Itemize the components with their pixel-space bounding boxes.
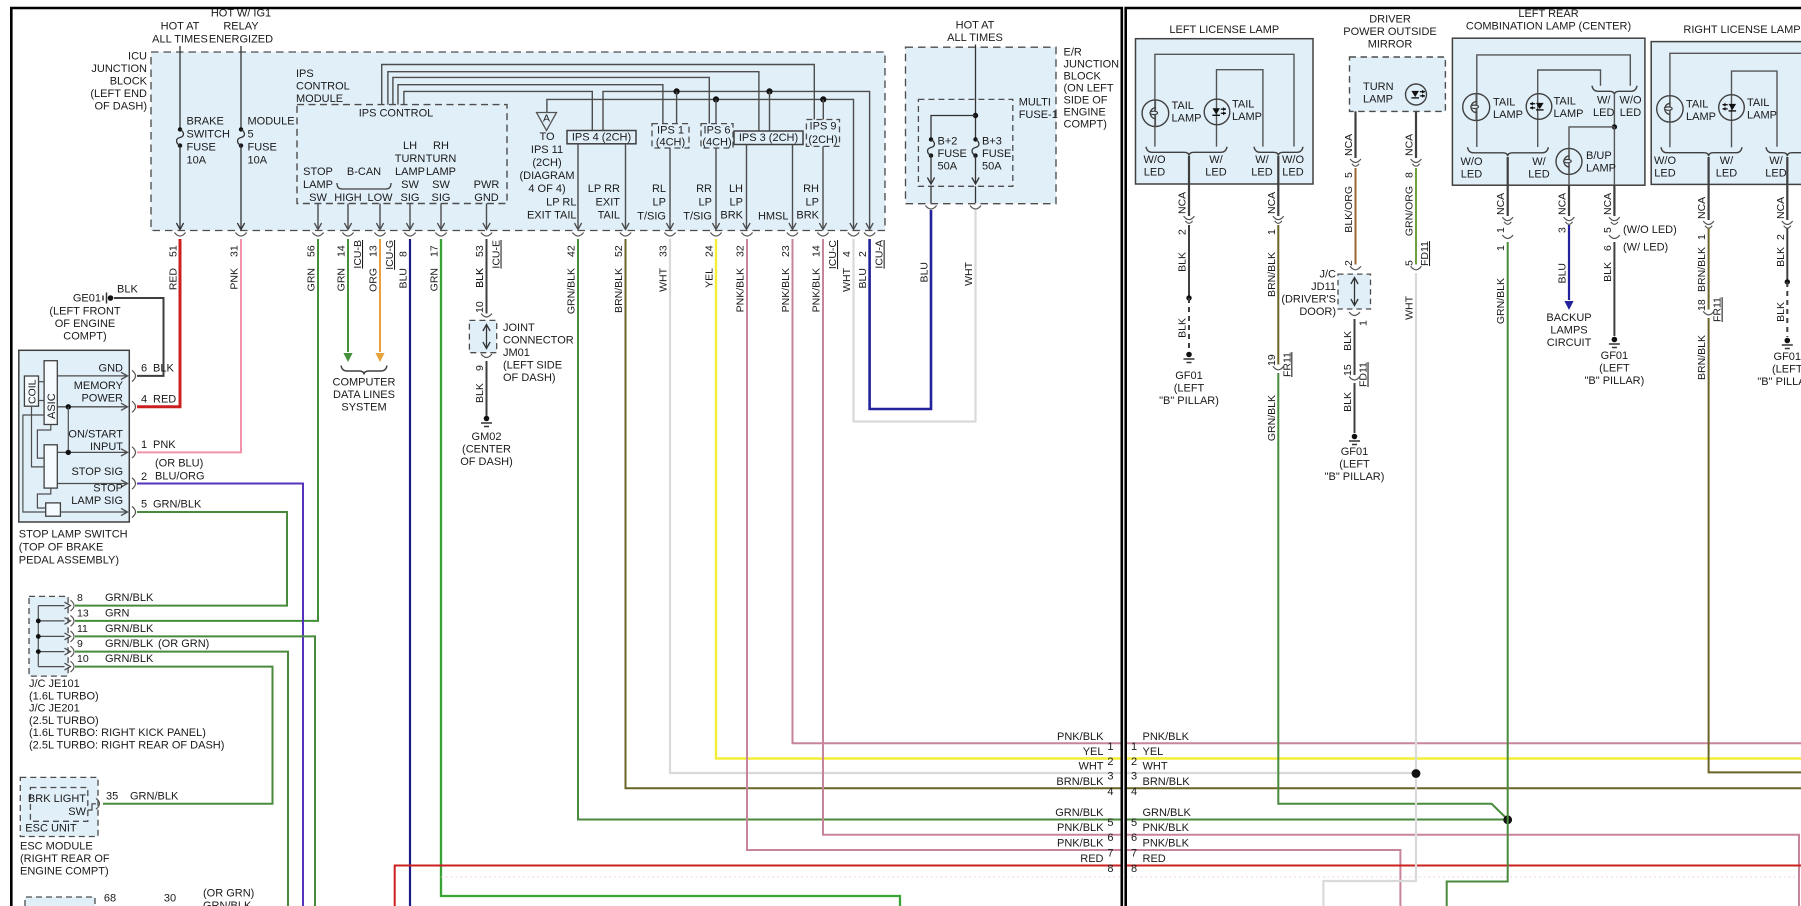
svg-text:BLK: BLK — [153, 363, 174, 375]
LED turn lamp — [1406, 84, 1427, 105]
svg-text:YEL: YEL — [704, 268, 716, 288]
wire GRN/BLK JE101 pin11 down — [75, 636, 315, 906]
svg-text:PNK/BLK: PNK/BLK — [1057, 838, 1104, 850]
wire PNK/BLK pin14 to row 6 — [823, 239, 1122, 835]
svg-text:TAIL: TAIL — [598, 210, 620, 222]
wire BRN/BLK to FR11 — [1277, 225, 1279, 365]
svg-text:LH: LH — [403, 140, 417, 152]
node on line F for IPS 6 — [713, 96, 719, 102]
svg-text:1: 1 — [1266, 229, 1278, 235]
svg-text:GRN/BLK: GRN/BLK — [105, 592, 154, 604]
junction block ICU (box) — [151, 52, 885, 231]
pin STOP SIG — [57, 483, 126, 485]
wire: IPS CONTROL stub x=410 — [409, 204, 411, 229]
svg-text:T/SIG: T/SIG — [637, 211, 666, 223]
svg-text:(1.6L TURBO: RIGHT KICK PANEL): (1.6L TURBO: RIGHT KICK PANEL) — [29, 727, 206, 739]
svg-text:7: 7 — [1107, 848, 1113, 860]
ESC unit outer box — [20, 777, 98, 836]
svg-text:GF01: GF01 — [1601, 350, 1629, 362]
mirror output wires — [1354, 111, 1356, 158]
svg-text:WHT: WHT — [1078, 761, 1103, 773]
svg-text:LED: LED — [1654, 168, 1675, 180]
svg-text:(2CH): (2CH) — [532, 157, 561, 169]
svg-text:BLK: BLK — [117, 284, 138, 296]
svg-text:(4CH): (4CH) — [656, 137, 685, 149]
row 8 wire RED — [1126, 865, 1801, 867]
svg-text:RELAY: RELAY — [223, 21, 259, 33]
ground GF01 left B pillar — [1186, 352, 1192, 358]
svg-text:NCA: NCA — [1404, 134, 1416, 156]
wire: feed from HOT W/IG1 — [240, 46, 242, 129]
wire GRN pin14 to computer data lines — [347, 239, 349, 352]
svg-text:35: 35 — [106, 791, 118, 803]
wire from B+2 to box edge — [930, 156, 932, 183]
svg-text:WHT: WHT — [1404, 295, 1416, 319]
node on line F for IPS 9 — [820, 96, 826, 102]
node on line E for IPS 1 — [674, 88, 680, 94]
svg-text:5: 5 — [248, 129, 254, 141]
svg-text:SYSTEM: SYSTEM — [341, 402, 386, 414]
svg-text:4 OF 4): 4 OF 4) — [528, 183, 565, 195]
svg-text:E/R: E/R — [1064, 47, 1082, 59]
svg-text:FUSE: FUSE — [248, 142, 277, 154]
output BRN/BLK right license — [1707, 157, 1709, 220]
IPS 4 (2CH) box U-IPS4 — [567, 131, 636, 144]
svg-text:51: 51 — [168, 245, 180, 257]
svg-text:BRN/BLK: BRN/BLK — [1056, 776, 1104, 788]
svg-text:31: 31 — [229, 245, 241, 257]
connector pin 24 at x=716 — [710, 233, 721, 237]
IPS 9 (2CH) box — [806, 120, 839, 147]
svg-text:B+3: B+3 — [982, 136, 1002, 148]
svg-text:LAMP: LAMP — [426, 166, 456, 178]
svg-text:STOP LAMP SWITCH: STOP LAMP SWITCH — [19, 529, 128, 541]
svg-text:W/O: W/O — [1620, 95, 1642, 107]
svg-text:GRN: GRN — [429, 268, 441, 291]
pin STOP LAMP SIG — [60, 511, 126, 513]
svg-text:COMPUTER: COMPUTER — [333, 377, 396, 389]
output BLK right license — [1786, 157, 1788, 220]
svg-text:NCA: NCA — [1177, 192, 1189, 214]
svg-text:LAMP: LAMP — [1747, 110, 1777, 122]
svg-text:TURN: TURN — [395, 153, 426, 165]
wire BLK to FD11 — [1354, 319, 1356, 375]
svg-text:SW: SW — [309, 192, 327, 204]
wire GRN/BLK stop lamp sig to JE101 pin 8 — [75, 512, 287, 606]
svg-text:6: 6 — [1602, 245, 1614, 251]
svg-text:COMPT): COMPT) — [1064, 119, 1107, 131]
svg-text:SW: SW — [432, 179, 450, 191]
svg-text:GRN/BLK: GRN/BLK — [566, 268, 578, 314]
wire: IPS bus line E right to pin 2 — [603, 91, 870, 228]
svg-text:32: 32 — [735, 245, 747, 257]
svg-text:B-CAN: B-CAN — [347, 166, 381, 178]
pin MEMORY POWER — [57, 406, 126, 408]
wire BLK/ORG — [1355, 168, 1357, 265]
svg-text:BLK: BLK — [1775, 302, 1787, 322]
svg-text:PEDAL ASSEMBLY): PEDAL ASSEMBLY) — [19, 555, 119, 567]
svg-text:4: 4 — [841, 251, 853, 257]
svg-text:10A: 10A — [248, 155, 268, 167]
svg-text:5: 5 — [1131, 817, 1137, 829]
svg-text:PNK/BLK: PNK/BLK — [1143, 731, 1190, 743]
svg-text:GF01: GF01 — [1774, 351, 1801, 363]
svg-text:PNK/BLK: PNK/BLK — [780, 268, 792, 312]
svg-text:8: 8 — [398, 251, 410, 257]
svg-text:PNK/BLK: PNK/BLK — [811, 268, 823, 312]
svg-text:NCA: NCA — [1266, 192, 1278, 214]
internal link L3 — [37, 488, 50, 508]
svg-text:"B" PILLAR): "B" PILLAR) — [1159, 395, 1219, 407]
svg-text:LED: LED — [1205, 167, 1226, 179]
svg-text:LED: LED — [1528, 169, 1549, 181]
svg-text:RR: RR — [696, 183, 712, 195]
svg-text:BRK LIGHT: BRK LIGHT — [28, 793, 86, 805]
svg-text:6: 6 — [1107, 832, 1113, 844]
BRK LIGHT SW box — [30, 788, 87, 822]
svg-text:(DRIVER'S: (DRIVER'S — [1281, 294, 1336, 306]
svg-text:GRN/BLK: GRN/BLK — [1143, 807, 1192, 819]
wire BLK to GF01 — [1354, 383, 1356, 433]
svg-text:GM02: GM02 — [472, 431, 502, 443]
svg-text:24: 24 — [704, 245, 716, 257]
svg-text:FUSE: FUSE — [982, 148, 1011, 160]
svg-text:ALL TIMES: ALL TIMES — [152, 34, 208, 46]
svg-text:"B" PILLAR): "B" PILLAR) — [1325, 471, 1385, 483]
svg-text:LED: LED — [1593, 107, 1614, 119]
svg-text:MULTI: MULTI — [1019, 97, 1051, 109]
svg-text:(2CH): (2CH) — [808, 134, 837, 146]
svg-text:J/C JE201: J/C JE201 — [29, 703, 80, 715]
left panel border — [11, 8, 1122, 906]
svg-text:W/O: W/O — [1461, 156, 1483, 168]
svg-text:HOT AT: HOT AT — [161, 21, 200, 33]
svg-text:LAMP SIG: LAMP SIG — [71, 495, 123, 507]
svg-text:BLOCK: BLOCK — [1064, 71, 1102, 83]
svg-text:GRN: GRN — [336, 268, 348, 291]
svg-text:HMSL: HMSL — [758, 211, 789, 223]
wire: IPS6 out RR LP T/SIG — [715, 148, 717, 229]
svg-text:BLU: BLU — [1557, 263, 1569, 283]
wire WHT pin4 to B+3 fuse — [854, 210, 976, 422]
svg-text:(1.6L TURBO): (1.6L TURBO) — [29, 690, 99, 702]
svg-text:GRN/BLK: GRN/BLK — [105, 623, 154, 635]
IPS 3 (2CH) box — [734, 131, 803, 145]
svg-text:4: 4 — [1131, 786, 1137, 798]
svg-text:TAIL: TAIL — [1686, 99, 1708, 111]
svg-text:ESC MODULE: ESC MODULE — [20, 841, 93, 853]
wire GRN pin17 down and right off page — [441, 239, 900, 906]
wire BLK GND to GE01 — [114, 298, 164, 376]
svg-text:LP RL: LP RL — [546, 197, 576, 209]
svg-text:(RIGHT REAR OF: (RIGHT REAR OF — [20, 853, 110, 865]
svg-text:1: 1 — [1107, 741, 1113, 753]
svg-text:10: 10 — [77, 653, 89, 665]
wire BLU to backup lamps circuit — [1568, 225, 1570, 300]
svg-text:5: 5 — [1602, 227, 1614, 233]
svg-text:33: 33 — [658, 245, 670, 257]
svg-text:YEL: YEL — [1083, 746, 1104, 758]
MULTI FUSE-1 box — [918, 99, 1012, 186]
svg-text:W/: W/ — [1255, 154, 1269, 166]
wire: feed from HOT AT ALL TIMES — [179, 46, 181, 129]
svg-text:"B" PILLAR): "B" PILLAR) — [1757, 376, 1801, 388]
connector pin 56 at x=318 — [312, 233, 323, 237]
svg-text:(OR GRN): (OR GRN) — [203, 888, 254, 900]
svg-text:TO: TO — [539, 131, 555, 143]
svg-text:LP: LP — [699, 197, 712, 209]
svg-text:JOINT: JOINT — [503, 322, 535, 334]
svg-text:7: 7 — [1131, 848, 1137, 860]
ground GF01 (right license) — [1785, 338, 1791, 344]
svg-text:CIRCUIT: CIRCUIT — [1547, 337, 1592, 349]
connector pin 17 at x=441 — [435, 233, 446, 237]
svg-text:RED: RED — [153, 394, 176, 406]
ground GM02 (CENTER OF DASH) — [484, 416, 490, 422]
svg-text:1: 1 — [1495, 227, 1507, 233]
connector pin 52 at x=625.5 — [620, 233, 631, 237]
svg-text:IPS CONTROL: IPS CONTROL — [359, 108, 434, 120]
svg-text:GE01: GE01 — [73, 293, 101, 305]
svg-text:COMBINATION LAMP (CENTER): COMBINATION LAMP (CENTER) — [1466, 21, 1631, 33]
svg-text:LAMPS: LAMPS — [1550, 325, 1587, 337]
svg-text:W/: W/ — [1532, 156, 1546, 168]
svg-text:LED: LED — [1282, 167, 1303, 179]
bulb tail lamp (comb) — [1463, 94, 1490, 121]
output wire pin1 — [1277, 156, 1279, 216]
wire BRN/BLK down and right off page — [1709, 318, 1801, 772]
svg-text:OF DASH): OF DASH) — [460, 456, 513, 468]
svg-text:BRN/BLK: BRN/BLK — [613, 268, 625, 313]
svg-text:PWR: PWR — [474, 179, 500, 191]
svg-text:(LEFT: (LEFT — [1339, 459, 1370, 471]
row 7 wire PNK/BLK — [1126, 850, 1401, 906]
connector pin 53 at x=486.5 — [481, 233, 492, 237]
svg-text:LED: LED — [1765, 168, 1786, 180]
svg-text:TURN: TURN — [426, 153, 457, 165]
IPS CONTROL inner box — [297, 105, 507, 204]
connector pin 32 at x=747 — [741, 233, 752, 237]
svg-text:JUNCTION: JUNCTION — [1064, 59, 1120, 71]
svg-text:SIG: SIG — [401, 192, 420, 204]
stop lamp switch box — [19, 350, 130, 522]
wire from B+3 to box edge — [975, 156, 977, 183]
svg-text:17: 17 — [429, 245, 441, 257]
row 1 wire PNK/BLK — [1126, 742, 1801, 744]
svg-text:8: 8 — [1404, 172, 1416, 178]
svg-text:(2.5L TURBO): (2.5L TURBO) — [29, 715, 99, 727]
svg-text:(LEFT SIDE: (LEFT SIDE — [503, 360, 562, 372]
svg-text:53: 53 — [474, 245, 486, 257]
svg-text:11: 11 — [77, 623, 88, 635]
svg-text:W/: W/ — [1209, 154, 1223, 166]
svg-text:BLU/ORG: BLU/ORG — [155, 471, 205, 483]
svg-text:TURN: TURN — [1363, 81, 1394, 93]
row 3 wire WHT — [1126, 772, 1416, 774]
wire: IPS bus line D — [398, 85, 663, 124]
svg-text:(OR GRN): (OR GRN) — [158, 638, 209, 650]
svg-text:GND: GND — [474, 192, 499, 204]
svg-text:GRN/BLK: GRN/BLK — [1495, 278, 1507, 324]
svg-text:LAMP: LAMP — [395, 166, 425, 178]
svg-text:BLK: BLK — [1342, 331, 1354, 351]
svg-text:BRN/BLK: BRN/BLK — [1266, 252, 1278, 297]
wire BLK JM01 to GM02 — [486, 361, 488, 416]
svg-text:SW: SW — [401, 179, 419, 191]
COIL box — [24, 376, 38, 406]
svg-text:WHT: WHT — [1143, 761, 1168, 773]
svg-text:2: 2 — [857, 251, 869, 257]
svg-text:13: 13 — [77, 607, 89, 619]
svg-text:BLK: BLK — [474, 268, 486, 288]
svg-text:GRN/BLK: GRN/BLK — [105, 638, 154, 650]
svg-text:TAIL: TAIL — [1554, 96, 1576, 108]
svg-text:42: 42 — [566, 245, 578, 257]
svg-text:SW: SW — [68, 806, 86, 818]
svg-text:NCA: NCA — [1495, 193, 1507, 215]
wire GRN/BLK pin42 to row 5 — [578, 239, 1122, 820]
svg-text:(ON LEFT: (ON LEFT — [1064, 83, 1114, 95]
svg-text:MODULE: MODULE — [296, 93, 343, 105]
merge brace 2 (right license) — [1766, 147, 1801, 156]
wire BLK pin53 to JM01 — [486, 239, 488, 314]
right panel border — [1126, 8, 1801, 906]
wire: IPS3 out LH LP BRK — [746, 145, 748, 229]
node row3/WHT — [1412, 769, 1421, 778]
svg-text:GRN: GRN — [105, 607, 130, 619]
wire BRN/BLK to FR11 (right license) — [1708, 228, 1710, 310]
svg-text:MIRROR: MIRROR — [1368, 39, 1413, 51]
ground GE01 — [108, 295, 114, 301]
JE101 pin 8 — [38, 605, 64, 607]
connector pin 2 at x=869.6 — [864, 233, 875, 237]
IPS 6 (4CH) box — [701, 124, 733, 148]
svg-text:50A: 50A — [982, 161, 1002, 173]
wire WHT pin33 to row 3 — [670, 239, 1122, 773]
wire BLK to GF01 — [1188, 225, 1190, 298]
wire RED row 8 from bottom — [395, 866, 1122, 906]
E/R junction block box — [906, 47, 1057, 204]
svg-text:14: 14 — [336, 245, 348, 257]
connector pin 31 at x=241 — [235, 233, 246, 237]
wire: IPS bus line E left — [404, 91, 592, 130]
svg-text:(LEFT: (LEFT — [1772, 364, 1801, 376]
wire GRN/BLK down to node — [1447, 242, 1508, 906]
wire BLK dashed to GF01 (right license) — [1786, 228, 1788, 282]
pin ON/START INPUT — [57, 451, 126, 453]
svg-text:ICU-A: ICU-A — [874, 240, 886, 269]
svg-text:SIG: SIG — [432, 192, 451, 204]
svg-text:PNK: PNK — [153, 439, 176, 451]
ground GF01 (comb) — [1612, 337, 1618, 343]
svg-text:BACKUP: BACKUP — [1546, 312, 1591, 324]
svg-text:PNK/BLK: PNK/BLK — [1057, 731, 1104, 743]
svg-text:5: 5 — [1343, 172, 1355, 178]
svg-text:(W/ LED): (W/ LED) — [1623, 242, 1668, 254]
connector pin 8 at x=410 — [404, 233, 415, 237]
wire: IPS CONTROL stub x=318 — [317, 204, 319, 229]
faint optional wire (dotted) — [441, 876, 1121, 878]
svg-text:PNK/BLK: PNK/BLK — [1057, 822, 1104, 834]
wire BLU pin2 to B+2 fuse — [870, 210, 931, 409]
JE101 pin 13 — [38, 620, 64, 622]
svg-text:LP: LP — [730, 197, 743, 209]
svg-text:PNK/BLK: PNK/BLK — [735, 268, 747, 312]
svg-text:WHT: WHT — [658, 267, 670, 291]
svg-text:(LEFT FRONT: (LEFT FRONT — [49, 306, 121, 318]
svg-text:1: 1 — [1495, 245, 1507, 251]
svg-text:BLK: BLK — [1602, 262, 1614, 282]
svg-text:BLK: BLK — [1775, 247, 1787, 267]
wire PNK pin31 to ON/START INPUT — [137, 239, 241, 452]
svg-text:WHT: WHT — [841, 267, 853, 291]
wire: IPS4 out LP RR EXIT TAIL — [625, 144, 627, 229]
row 6 wire PNK/BLK — [1126, 835, 1799, 906]
svg-text:2: 2 — [141, 471, 147, 483]
svg-text:56: 56 — [306, 245, 318, 257]
wire: IPS1 out RL LP T/SIG — [669, 148, 671, 229]
svg-text:PNK/BLK: PNK/BLK — [1143, 822, 1190, 834]
wire BLU/ORG stop sig down — [137, 484, 303, 906]
svg-text:(DIAGRAM: (DIAGRAM — [520, 170, 575, 182]
row 4 wire BRN/BLK — [1126, 787, 1801, 789]
svg-text:BLU: BLU — [398, 268, 410, 288]
lamp internal wiring — [1155, 54, 1294, 146]
svg-text:GRN/BLK: GRN/BLK — [203, 900, 252, 906]
svg-text:"B" PILLAR): "B" PILLAR) — [1585, 375, 1645, 387]
svg-text:LAMP: LAMP — [1363, 94, 1393, 106]
wire: IPS9 out RH LP BRK — [822, 146, 824, 228]
svg-text:J/C JE101: J/C JE101 — [29, 678, 80, 690]
row 5 wire GRN/BLK — [1126, 819, 1506, 821]
svg-text:OF DASH): OF DASH) — [94, 101, 147, 113]
svg-text:LAMP: LAMP — [1232, 111, 1262, 123]
svg-text:50A: 50A — [938, 161, 958, 173]
svg-text:OF DASH): OF DASH) — [503, 372, 556, 384]
connector pin 42 at x=578 — [572, 233, 583, 237]
LED tail lamp (comb) — [1526, 94, 1552, 120]
svg-text:LED: LED — [1620, 107, 1641, 119]
wire GRN/BLK down to junction — [1278, 373, 1507, 820]
bulb B/UP lamp — [1556, 148, 1582, 174]
svg-text:CONNECTOR: CONNECTOR — [503, 335, 574, 347]
svg-text:BLU: BLU — [919, 262, 931, 282]
switch element box 2 — [46, 503, 61, 516]
bulb tail lamp — [1142, 100, 1169, 127]
svg-text:GRN/ORG: GRN/ORG — [1404, 186, 1416, 236]
svg-text:NCA: NCA — [1696, 197, 1708, 219]
connector pin 13 at x=380 — [374, 233, 385, 237]
svg-text:8: 8 — [1107, 863, 1113, 875]
comb output 1 GRN/BLK — [1507, 157, 1509, 216]
svg-text:18: 18 — [1696, 299, 1708, 311]
svg-text:6: 6 — [1131, 832, 1137, 844]
wire: IPS bus line B — [388, 72, 759, 131]
svg-text:LAMP: LAMP — [1172, 113, 1202, 125]
svg-text:RH: RH — [803, 183, 819, 195]
wire GRN/BLK JE101 pin9 down — [75, 652, 288, 906]
fuse B+2 50A — [929, 137, 933, 141]
svg-text:YEL: YEL — [1143, 746, 1164, 758]
svg-text:GRN/BLK: GRN/BLK — [1055, 807, 1104, 819]
svg-text:BLK: BLK — [1177, 252, 1189, 272]
ground GF01 (mirror chain) — [1352, 434, 1358, 440]
svg-text:1: 1 — [1358, 320, 1370, 326]
svg-text:IPS: IPS — [296, 68, 314, 80]
svg-text:JUNCTION: JUNCTION — [91, 63, 147, 75]
svg-text:LED: LED — [1461, 169, 1482, 181]
svg-text:FUSE: FUSE — [187, 142, 216, 154]
